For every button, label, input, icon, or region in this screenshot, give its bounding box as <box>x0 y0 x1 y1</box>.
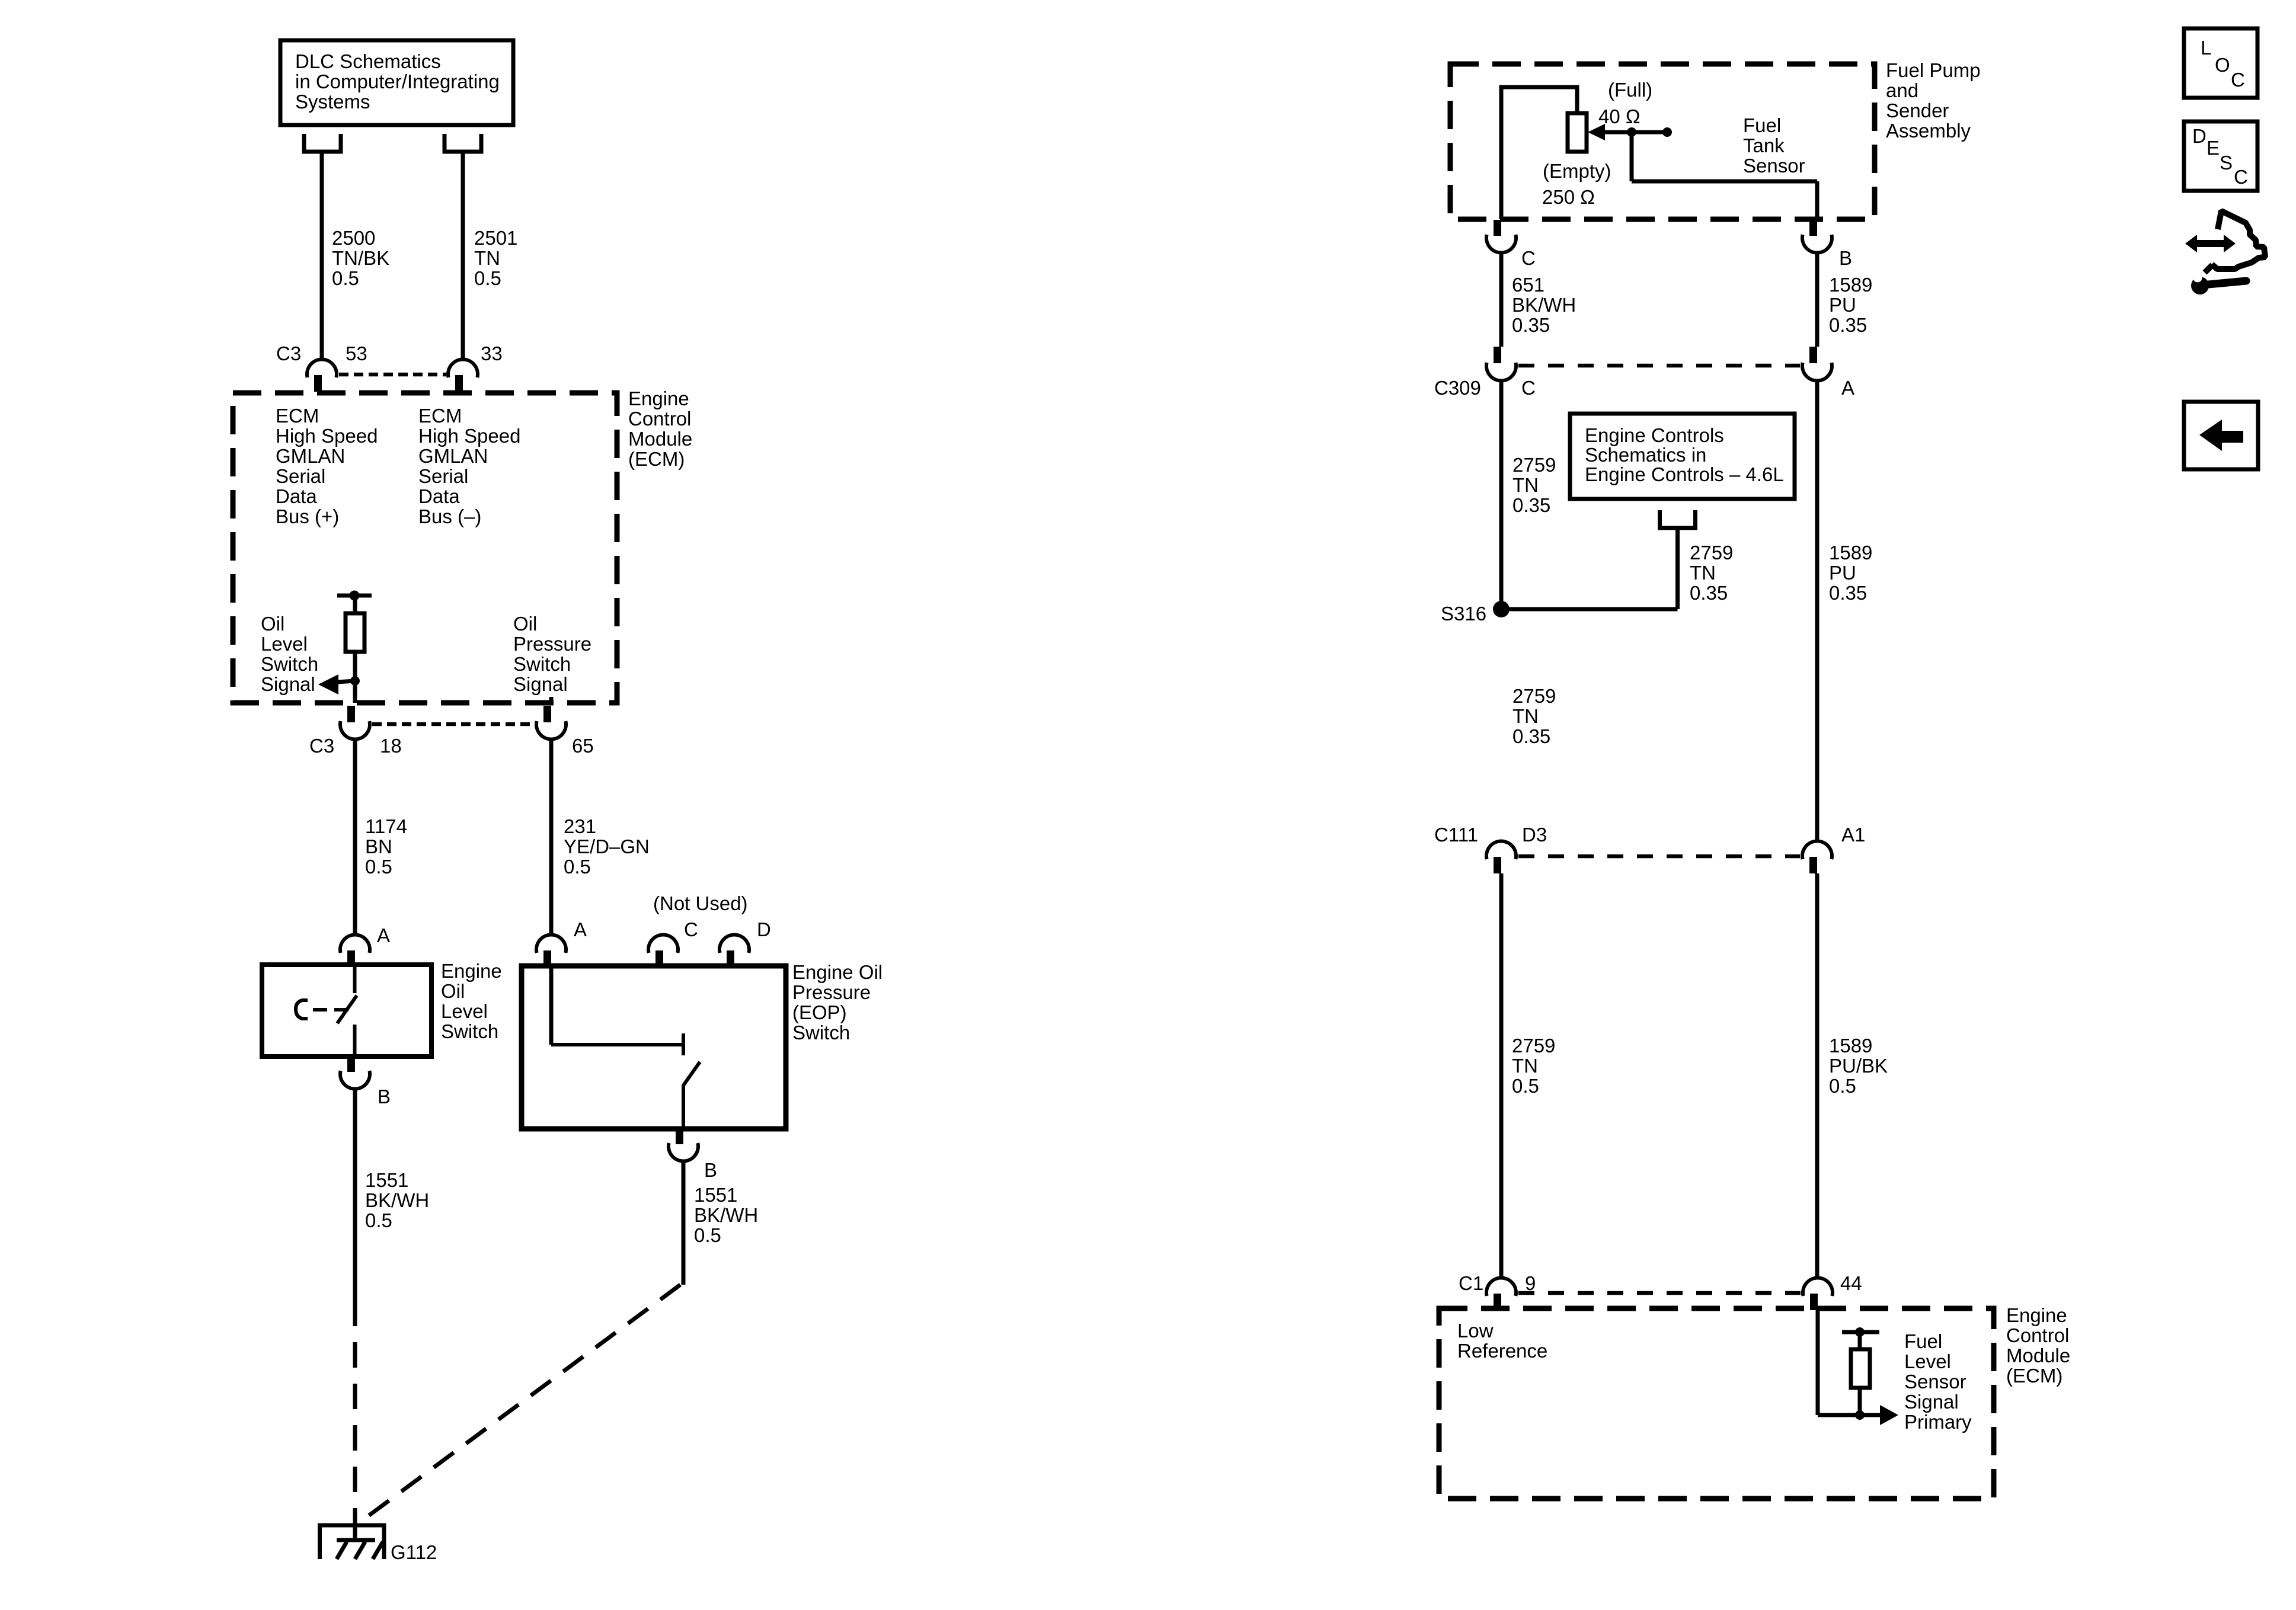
svg-text:53: 53 <box>346 343 367 364</box>
svg-text:(EOP): (EOP) <box>792 1001 847 1023</box>
svg-text:44: 44 <box>1840 1272 1862 1294</box>
svg-text:Sender: Sender <box>1886 100 1949 121</box>
svg-text:Engine Oil: Engine Oil <box>792 961 882 983</box>
svg-text:Switch: Switch <box>261 653 318 675</box>
svg-text:A: A <box>1841 377 1854 399</box>
svg-text:Data: Data <box>276 485 317 507</box>
svg-text:YE/D–GN: YE/D–GN <box>564 836 650 857</box>
svg-text:C: C <box>1521 377 1536 399</box>
svg-text:2759: 2759 <box>1512 454 1556 476</box>
svg-text:Level: Level <box>441 1000 488 1022</box>
svg-text:B: B <box>378 1086 391 1108</box>
svg-text:and: and <box>1886 79 1918 101</box>
svg-text:Fuel Pump: Fuel Pump <box>1886 59 1981 81</box>
svg-text:PU/BK: PU/BK <box>1829 1055 1888 1077</box>
svg-text:2759: 2759 <box>1690 542 1733 564</box>
svg-text:Pressure: Pressure <box>792 981 871 1003</box>
svg-text:Low: Low <box>1457 1320 1494 1342</box>
svg-text:(Empty): (Empty) <box>1543 160 1611 182</box>
svg-text:1589: 1589 <box>1829 542 1872 564</box>
svg-text:Engine Controls – 4.6L: Engine Controls – 4.6L <box>1585 463 1784 485</box>
svg-text:High Speed: High Speed <box>418 425 520 447</box>
svg-text:Oil: Oil <box>513 613 537 635</box>
svg-text:TN: TN <box>474 247 500 269</box>
svg-text:(Not Used): (Not Used) <box>653 892 748 914</box>
svg-text:GMLAN: GMLAN <box>276 445 345 467</box>
svg-text:0.35: 0.35 <box>1829 582 1867 604</box>
svg-text:1551: 1551 <box>365 1169 408 1191</box>
svg-text:0.35: 0.35 <box>1512 314 1550 336</box>
svg-text:Sensor: Sensor <box>1904 1371 1966 1393</box>
svg-text:33: 33 <box>481 343 503 364</box>
svg-text:A: A <box>574 918 587 940</box>
svg-text:9: 9 <box>1525 1272 1536 1294</box>
svg-text:BK/WH: BK/WH <box>694 1204 758 1226</box>
svg-text:0.35: 0.35 <box>1512 494 1550 516</box>
svg-text:1589: 1589 <box>1829 1035 1872 1057</box>
svg-text:1174: 1174 <box>365 815 407 837</box>
svg-text:Control: Control <box>628 408 691 430</box>
svg-text:Assembly: Assembly <box>1886 120 1971 142</box>
svg-text:S316: S316 <box>1441 603 1486 625</box>
svg-text:(ECM): (ECM) <box>2006 1365 2062 1387</box>
svg-text:Signal: Signal <box>261 673 315 695</box>
svg-text:C1: C1 <box>1459 1272 1483 1294</box>
svg-text:0.35: 0.35 <box>1829 314 1867 336</box>
svg-text:High Speed: High Speed <box>276 425 378 447</box>
svg-text:651: 651 <box>1512 274 1544 296</box>
svg-text:TN: TN <box>1512 474 1539 496</box>
svg-text:0.5: 0.5 <box>332 267 359 289</box>
svg-text:C3: C3 <box>309 735 334 757</box>
svg-text:PU: PU <box>1829 562 1856 584</box>
svg-text:Engine: Engine <box>441 960 502 982</box>
svg-text:Level: Level <box>261 633 308 655</box>
svg-text:0.5: 0.5 <box>365 1209 392 1231</box>
svg-text:C309: C309 <box>1434 377 1481 399</box>
svg-text:Tank: Tank <box>1743 135 1785 156</box>
svg-text:C: C <box>1521 247 1536 269</box>
svg-text:C: C <box>2234 166 2248 188</box>
svg-text:TN/BK: TN/BK <box>332 247 389 269</box>
svg-text:Reference: Reference <box>1457 1340 1547 1362</box>
svg-text:0.5: 0.5 <box>365 856 392 878</box>
svg-text:PU: PU <box>1829 294 1856 316</box>
svg-text:C3: C3 <box>276 343 301 364</box>
svg-text:DLC Schematics: DLC Schematics <box>295 50 441 72</box>
svg-text:Switch: Switch <box>441 1020 498 1042</box>
svg-text:Module: Module <box>2006 1345 2070 1366</box>
svg-text:BK/WH: BK/WH <box>1512 294 1576 316</box>
svg-text:Serial: Serial <box>418 465 468 487</box>
svg-text:Primary: Primary <box>1904 1411 1972 1433</box>
svg-text:Serial: Serial <box>276 465 325 487</box>
svg-text:2501: 2501 <box>474 227 517 249</box>
svg-text:Control: Control <box>2006 1324 2069 1346</box>
svg-text:Systems: Systems <box>295 91 370 113</box>
svg-text:TN: TN <box>1690 562 1716 584</box>
svg-text:Bus (+): Bus (+) <box>276 505 339 527</box>
svg-text:2759: 2759 <box>1512 685 1556 707</box>
svg-text:0.5: 0.5 <box>694 1224 721 1246</box>
svg-text:18: 18 <box>380 735 402 757</box>
svg-text:Pressure: Pressure <box>513 633 591 655</box>
svg-text:D: D <box>2192 125 2207 147</box>
svg-text:S: S <box>2220 152 2233 174</box>
svg-text:2500: 2500 <box>332 227 375 249</box>
svg-text:0.5: 0.5 <box>474 267 501 289</box>
svg-text:0.5: 0.5 <box>564 856 591 878</box>
svg-text:0.35: 0.35 <box>1690 582 1728 604</box>
svg-text:G112: G112 <box>391 1541 437 1563</box>
svg-text:in Computer/Integrating: in Computer/Integrating <box>295 71 500 92</box>
svg-text:(Full): (Full) <box>1608 79 1652 101</box>
svg-text:Level: Level <box>1904 1350 1951 1372</box>
svg-text:Fuel: Fuel <box>1904 1330 1942 1352</box>
svg-text:E: E <box>2207 137 2220 159</box>
svg-text:0.35: 0.35 <box>1512 725 1550 747</box>
svg-text:B: B <box>704 1159 717 1181</box>
svg-text:GMLAN: GMLAN <box>418 445 488 467</box>
svg-text:C: C <box>684 918 698 940</box>
svg-text:L: L <box>2201 37 2211 59</box>
svg-text:Signal: Signal <box>1904 1391 1959 1413</box>
svg-text:Signal: Signal <box>513 673 568 695</box>
svg-text:231: 231 <box>564 815 596 837</box>
svg-text:Module: Module <box>628 428 692 450</box>
svg-text:Schematics in: Schematics in <box>1585 444 1706 466</box>
svg-text:Fuel: Fuel <box>1743 114 1781 136</box>
svg-text:Switch: Switch <box>513 653 571 675</box>
svg-text:ECM: ECM <box>418 405 462 427</box>
svg-text:Data: Data <box>418 485 460 507</box>
svg-text:ECM: ECM <box>276 405 319 427</box>
svg-text:2759: 2759 <box>1512 1035 1555 1057</box>
svg-text:Engine: Engine <box>628 388 689 409</box>
svg-text:B: B <box>1839 247 1852 269</box>
svg-text:TN: TN <box>1512 705 1539 727</box>
svg-text:250 Ω: 250 Ω <box>1542 186 1595 208</box>
svg-text:65: 65 <box>572 735 594 757</box>
svg-text:Sensor: Sensor <box>1743 155 1805 177</box>
svg-text:BN: BN <box>365 836 392 857</box>
svg-text:D3: D3 <box>1522 824 1547 846</box>
svg-text:A1: A1 <box>1841 824 1865 846</box>
svg-text:Engine Controls: Engine Controls <box>1585 424 1724 446</box>
svg-text:0.5: 0.5 <box>1829 1075 1856 1097</box>
svg-text:C111: C111 <box>1434 824 1478 846</box>
svg-text:TN: TN <box>1512 1055 1538 1077</box>
svg-text:Engine: Engine <box>2006 1304 2067 1326</box>
svg-text:0.5: 0.5 <box>1512 1075 1539 1097</box>
svg-text:O: O <box>2215 54 2230 76</box>
svg-text:40 Ω: 40 Ω <box>1598 105 1641 127</box>
svg-text:Oil: Oil <box>261 613 284 635</box>
svg-text:BK/WH: BK/WH <box>365 1189 429 1211</box>
svg-text:D: D <box>757 918 771 940</box>
svg-text:Bus (–): Bus (–) <box>418 505 481 527</box>
svg-text:(ECM): (ECM) <box>628 448 685 470</box>
svg-text:1551: 1551 <box>694 1184 737 1206</box>
svg-text:Switch: Switch <box>792 1022 850 1044</box>
svg-text:1589: 1589 <box>1829 274 1872 296</box>
svg-text:A: A <box>377 924 390 946</box>
svg-text:C: C <box>2231 69 2245 91</box>
svg-text:Oil: Oil <box>441 980 465 1002</box>
